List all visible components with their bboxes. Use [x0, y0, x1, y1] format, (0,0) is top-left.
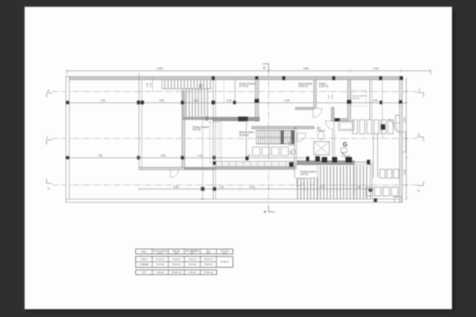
svg-text:1º ANDAR: 1º ANDAR: [139, 263, 149, 266]
planter squares row 1: [380, 169, 385, 178]
top exterior wall: [66, 77, 402, 80]
svg-text:Sala de Estar: Sala de Estar: [299, 82, 313, 85]
kitchen wall y=119: [213, 117, 259, 120]
wall above WC y=127.8: [296, 126, 315, 128]
axis marker H (right): [417, 181, 424, 186]
axis marker C (right): [417, 93, 424, 98]
axis line G (horizontal dash-dot y=185): [52, 184, 417, 186]
kitchen band end block: [289, 162, 294, 167]
svg-text:11.35 m2: 11.35 m2: [156, 264, 165, 266]
bathtub: [339, 121, 354, 130]
svg-text:11.60 m2: 11.60 m2: [319, 86, 329, 88]
kitchen counter band bottom: [216, 161, 295, 166]
section marker B (bottom): [269, 206, 275, 212]
svg-text:78.40 m2: 78.40 m2: [220, 262, 229, 264]
bathroom bottom thick wall y=163: [297, 161, 354, 165]
svg-text:11.70 m2: 11.70 m2: [239, 86, 249, 88]
interior wall x=183 (vertical, thick): [182, 91, 185, 169]
svg-text:(m2): (m2): [190, 252, 194, 254]
axis line D (horizontal dash-dot y=91.5): [52, 91, 417, 93]
dimension line y=102.8: [68, 102, 407, 104]
svg-text:5.30: 5.30: [374, 68, 379, 71]
svg-text:PISO: PISO: [142, 251, 147, 253]
dim ties (black) on y=157.8: [66, 156, 69, 160]
svg-text:(m2): (m2): [174, 252, 178, 254]
table header box: [136, 249, 233, 254]
table data box: [136, 256, 233, 267]
dimension line y=189: [139, 188, 373, 190]
svg-text:5.45: 5.45: [285, 100, 290, 103]
door arc left terrace wall: [171, 170, 179, 178]
kitchen wall x=246.5: [245, 120, 247, 167]
planter squares row 2: [366, 187, 372, 196]
horizontal interior wall y=168.5 (terrace/room divider): [139, 167, 185, 169]
terrace right edge double line: [369, 162, 371, 199]
stair direction mark: [199, 84, 201, 89]
wall x=295.5 vertical: [294, 127, 296, 178]
right exterior wall: [400, 77, 403, 203]
svg-text:F: F: [47, 136, 49, 140]
svg-text:Terraço Coberto: Terraço Coberto: [239, 82, 256, 85]
svg-text:19.06 m2: 19.06 m2: [239, 135, 249, 137]
wall x=370 double (upper right): [369, 80, 371, 120]
axis marker F (left): [47, 140, 53, 145]
interior wall x=349 (vertical thick): [348, 80, 351, 122]
door arc at left wall of WC: [297, 133, 306, 142]
stair dim extension x=202.7: [202, 118, 204, 202]
dimension line y=157.8: [68, 157, 306, 159]
dim ties (black) on y=102.8: [66, 101, 69, 105]
left exterior wall: [66, 77, 69, 203]
svg-text:7.60: 7.60: [101, 100, 106, 103]
columns on top wall (black): [212, 76, 215, 80]
toilet: [318, 132, 324, 140]
svg-text:2.75: 2.75: [404, 169, 407, 174]
svg-text:5.97 m2: 5.97 m2: [193, 130, 202, 132]
axis line F (horizontal dash-dot y=138.5): [52, 138, 417, 140]
interior wall x=257 (vertical thick): [255, 80, 258, 122]
svg-text:1.10: 1.10: [219, 186, 224, 189]
svg-text:2.10: 2.10: [289, 154, 293, 156]
svg-text:14.87: 14.87: [157, 68, 164, 71]
deck top edge: [295, 164, 372, 166]
svg-text:Sala de Jantar: Sala de Jantar: [239, 131, 254, 134]
black ties on dim/wall: [306, 157, 309, 162]
svg-text:7.60: 7.60: [98, 155, 103, 158]
svg-text:1.60 m2: 1.60 m2: [342, 156, 351, 158]
svg-text:4.08: 4.08: [161, 155, 166, 158]
svg-text:8.98: 8.98: [304, 68, 309, 71]
interior wall x=139 (vertical): [138, 73, 140, 169]
shower with X: [314, 142, 330, 155]
svg-text:Quarto: Quarto: [319, 82, 327, 85]
door arc quarto: [326, 121, 335, 130]
svg-text:1.15: 1.15: [198, 155, 203, 158]
svg-text:Terraço Coberto: Terraço Coberto: [193, 126, 210, 129]
bottom-right corner notch: [395, 197, 403, 203]
axis marker D (left): [47, 93, 53, 98]
svg-text:1.60 m2: 1.60 m2: [157, 272, 165, 274]
double wall x=375: [372, 133, 374, 178]
door arc hall: [313, 109, 322, 118]
wall y=119.8 right of door: [334, 119, 348, 121]
section line A-B (vertical dash-dot x=268.6): [268, 71, 270, 207]
svg-text:1.90 m2: 1.90 m2: [300, 174, 309, 176]
minor dashed line x=224: [223, 80, 225, 103]
svg-text:(m2): (m2): [206, 252, 210, 254]
window / glazed wall with mullions (double row): [256, 130, 295, 132]
stair landing edge (dark): [183, 117, 213, 119]
svg-text:4.08: 4.08: [373, 100, 378, 103]
kitchen counter left: [210, 122, 221, 163]
deck stripes left part: [297, 178, 299, 199]
svg-text:(m2): (m2): [223, 252, 227, 254]
interior line x=235: [234, 80, 236, 102]
svg-text:2.40: 2.40: [250, 186, 255, 189]
svg-text:G: G: [343, 143, 348, 149]
svg-text:(m2): (m2): [158, 252, 162, 254]
svg-text:133.60 m2: 133.60 m2: [172, 272, 182, 274]
hall wall y=108.5: [296, 107, 314, 109]
dashed terrace box: [352, 91, 367, 106]
wall band above window: [252, 126, 296, 128]
svg-text:4.00 m2: 4.00 m2: [317, 130, 326, 132]
svg-text:H: H: [418, 189, 420, 193]
small fixture: [341, 148, 347, 152]
svg-text:4.08: 4.08: [159, 100, 164, 103]
svg-text:D: D: [48, 89, 50, 93]
svg-text:1.60 m2: 1.60 m2: [189, 272, 197, 274]
svg-text:C: C: [419, 88, 421, 92]
bottom exterior wall: [66, 199, 402, 202]
right wall step detail: [396, 115, 400, 123]
section marker A (top): [263, 64, 269, 71]
door arc terrace: [297, 179, 305, 187]
wall break S-curve: [389, 121, 402, 133]
kitchen appliances: [253, 147, 260, 156]
pergola battens top-right: [353, 120, 358, 134]
thin line x=382: [381, 80, 383, 138]
wall x=333 upper: [331, 107, 334, 121]
interior wall x=214 (vertical): [212, 80, 214, 200]
svg-text:25.60 m2: 25.60 m2: [299, 86, 309, 88]
right vertical dimension line x=406.3: [405, 79, 407, 199]
svg-text:-6.50 m2: -6.50 m2: [188, 264, 197, 266]
stair lower run: [182, 89, 184, 118]
deck stripes right part: [320, 166, 322, 199]
svg-text:5.30: 5.30: [227, 100, 232, 103]
svg-text:8.05 m2: 8.05 m2: [189, 259, 197, 261]
top dimension line y=70.8: [67, 70, 431, 72]
stair upper run: [161, 80, 163, 89]
svg-text:0 (R/C): 0 (R/C): [141, 259, 148, 261]
svg-text:58.20 m2: 58.20 m2: [172, 264, 181, 266]
interior wall x=316 (vertical): [314, 80, 316, 108]
svg-text:1.60 m2: 1.60 m2: [352, 98, 360, 100]
table total box: [136, 270, 217, 275]
axis marker G (left): [47, 179, 53, 184]
svg-text:6.45: 6.45: [174, 186, 179, 189]
dim extension line x=152.5: [152, 77, 154, 92]
svg-text:Terraço Coberto: Terraço Coberto: [300, 171, 317, 174]
svg-text:21.75 m2: 21.75 m2: [156, 259, 165, 261]
WC partition x=333.5: [332, 130, 334, 159]
re-stamped black wall ties: [66, 101, 69, 105]
axis marker E (right): [417, 137, 424, 142]
svg-text:3.45: 3.45: [404, 117, 407, 122]
svg-text:E: E: [418, 133, 420, 137]
svg-text:75.40 m2: 75.40 m2: [172, 259, 181, 261]
svg-text:95.20 m2: 95.20 m2: [204, 259, 213, 261]
svg-text:174.65 m2: 174.65 m2: [204, 272, 214, 274]
svg-text:79.45 m2: 79.45 m2: [204, 264, 213, 266]
